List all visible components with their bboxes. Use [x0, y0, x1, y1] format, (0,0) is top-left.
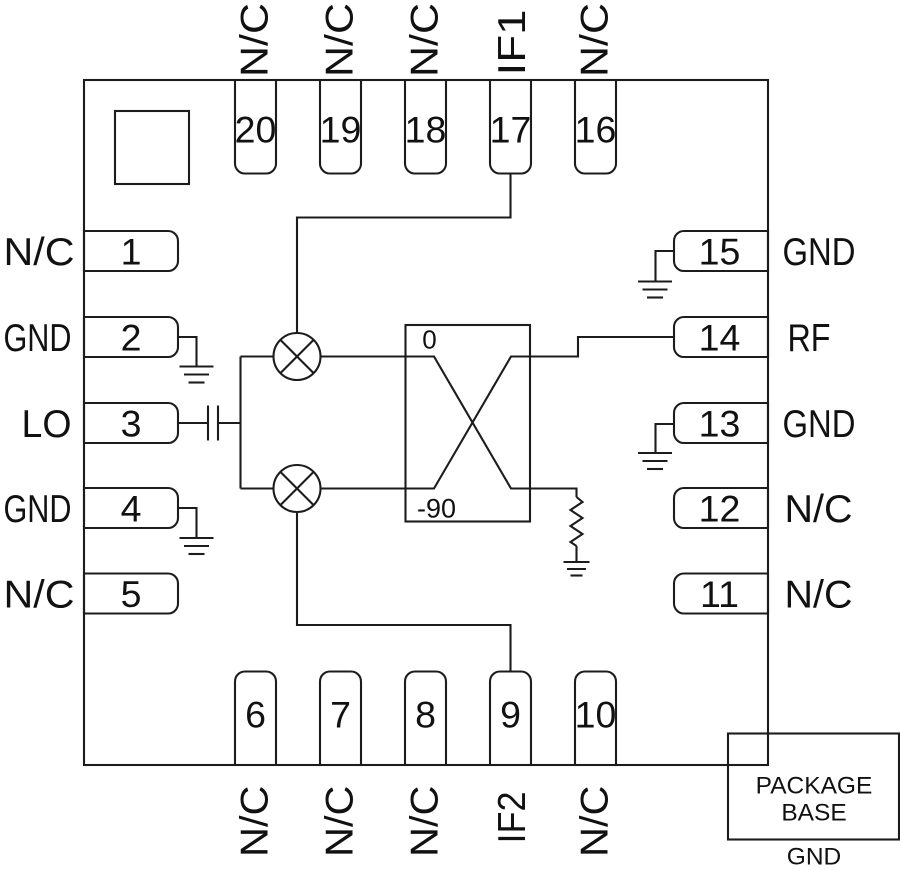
svg-text:1: 1	[121, 231, 142, 273]
svg-text:7: 7	[330, 694, 351, 736]
wire LO branch to mixer M1	[241, 355, 274, 357]
ground (pin 2)	[180, 367, 214, 383]
svg-text:N/C: N/C	[319, 786, 362, 858]
wire C1 to LO splitter node	[218, 422, 241, 424]
svg-text:N/C: N/C	[574, 786, 617, 858]
wire LO: pin 3 to capacitor C1	[178, 422, 208, 424]
pin 19 pad	[320, 80, 361, 174]
svg-text:RF: RF	[788, 317, 831, 360]
svg-text:N/C: N/C	[234, 3, 277, 77]
pin 5 pad	[84, 574, 178, 614]
svg-text:N/C: N/C	[404, 786, 447, 858]
svg-text:4: 4	[121, 488, 142, 530]
svg-text:N/C: N/C	[404, 3, 447, 77]
svg-text:14: 14	[699, 317, 741, 359]
pin 8 pad	[405, 672, 446, 766]
svg-text:-90: -90	[417, 494, 456, 524]
ground (pin 4)	[180, 538, 214, 554]
pin 4 pad	[84, 488, 178, 528]
svg-text:9: 9	[500, 694, 521, 736]
pin 20 pad	[235, 80, 276, 174]
wire pin 2 to ground	[178, 337, 197, 366]
wire pin 13 to ground	[656, 424, 675, 453]
svg-text:IF2: IF2	[491, 792, 534, 844]
svg-text:N/C: N/C	[4, 574, 75, 617]
svg-text:18: 18	[405, 109, 447, 151]
pin 18 pad	[405, 80, 446, 174]
svg-text:N/C: N/C	[785, 574, 853, 617]
svg-text:PACKAGE: PACKAGE	[756, 773, 873, 800]
quadrature hybrid U1 body	[406, 325, 531, 522]
pin 6 pad	[235, 672, 276, 766]
wire IF2: mixer M2 to pin 9	[297, 512, 511, 672]
resistor R1 (termination)	[571, 497, 583, 546]
wire IF1: pin 17 to mixer M1	[297, 174, 511, 333]
svg-text:3: 3	[121, 403, 142, 445]
capacitor C1 (LO dc block)	[208, 406, 218, 441]
svg-text:N/C: N/C	[234, 786, 277, 858]
svg-text:GND: GND	[787, 844, 841, 870]
wire LO branch vertical	[239, 357, 241, 489]
mixer M2	[274, 465, 321, 512]
svg-text:N/C: N/C	[4, 231, 75, 274]
pin 7 pad	[320, 672, 361, 766]
pin 14 pad	[674, 317, 768, 357]
pin 16 pad	[575, 80, 616, 174]
svg-text:10: 10	[575, 694, 617, 736]
svg-text:13: 13	[699, 403, 741, 445]
pin 2 pad	[84, 317, 178, 357]
svg-text:GND: GND	[4, 317, 72, 360]
svg-text:GND: GND	[783, 231, 856, 274]
wire mixer M1 to hybrid U1	[321, 355, 406, 357]
svg-text:11: 11	[700, 573, 739, 615]
pin 1 pad	[84, 231, 178, 271]
wire pin 15 to ground	[656, 251, 675, 281]
svg-text:5: 5	[121, 573, 142, 615]
svg-text:16: 16	[575, 109, 617, 151]
svg-text:IF1: IF1	[491, 10, 534, 76]
svg-text:2: 2	[121, 317, 142, 359]
svg-text:15: 15	[699, 231, 741, 273]
ground (R1 termination)	[564, 562, 590, 576]
mixer M1	[274, 333, 321, 380]
chip body outline	[84, 80, 768, 765]
svg-text:N/C: N/C	[574, 3, 617, 77]
svg-text:6: 6	[245, 694, 266, 736]
svg-text:N/C: N/C	[785, 488, 853, 531]
svg-text:8: 8	[415, 694, 436, 736]
svg-text:12: 12	[699, 488, 741, 530]
U1 crossover path B (-90 deg in to upper right)	[406, 357, 531, 489]
wire pin 4 to ground	[178, 508, 197, 538]
svg-text:GND: GND	[4, 488, 72, 531]
svg-text:BASE: BASE	[781, 800, 846, 827]
pin 9 pad	[490, 672, 531, 766]
pin 13 pad	[674, 403, 768, 443]
pin 11 pad	[674, 574, 768, 614]
wire LO branch to mixer M2	[241, 487, 274, 489]
U1 crossover path A (0 deg in to lower right)	[406, 357, 531, 489]
wire U1 to termination resistor R1	[530, 489, 577, 498]
package base box	[728, 734, 899, 840]
wire R1 to ground	[575, 546, 577, 562]
svg-text:N/C: N/C	[319, 3, 362, 77]
svg-text:GND: GND	[783, 403, 856, 446]
ground (pin 15)	[638, 282, 672, 298]
pin 10 pad	[575, 672, 616, 766]
wire mixer M2 to hybrid U1	[321, 487, 406, 489]
svg-text:19: 19	[320, 109, 362, 151]
pin 1 index marker	[115, 111, 189, 184]
svg-text:17: 17	[490, 109, 532, 151]
wire RF: U1 to pin 14	[530, 337, 674, 357]
pin 3 pad	[84, 403, 178, 443]
pin 15 pad	[674, 231, 768, 271]
svg-text:0: 0	[422, 325, 436, 355]
ground (pin 13)	[638, 453, 672, 469]
svg-text:LO: LO	[22, 403, 72, 446]
pin 12 pad	[674, 488, 768, 528]
svg-text:20: 20	[235, 109, 277, 151]
pin 17 pad	[490, 80, 531, 174]
